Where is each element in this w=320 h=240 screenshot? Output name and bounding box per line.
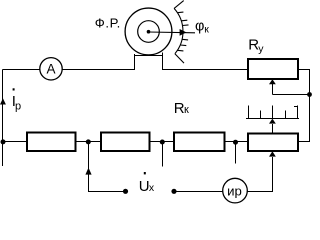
- label Rk: [174, 100, 189, 117]
- slide top wiper arrow: [269, 119, 276, 134]
- svg-text:у: у: [258, 43, 264, 55]
- svg-text:к: к: [184, 104, 189, 116]
- label Ry: [248, 37, 264, 55]
- wire Ux tap: [89, 142, 124, 192]
- wire ammeter to pedestal: [62, 69, 134, 71]
- indicator ir: [223, 178, 248, 203]
- node D (wiper to right rail): [307, 92, 312, 97]
- svg-text:х: х: [149, 182, 155, 194]
- ammeter A: [40, 58, 62, 80]
- potentiometer Ry: [248, 59, 298, 79]
- terminal dot Ux right: [171, 189, 176, 194]
- svg-text:к: к: [204, 24, 209, 36]
- slide bottom wiper arrow: [269, 151, 276, 156]
- label Ux: [139, 172, 155, 195]
- svg-text:A: A: [46, 62, 55, 77]
- needle arrow: [149, 29, 196, 36]
- Ry wiper arrow: [269, 79, 310, 94]
- node B (after R1, Ux tap): [86, 139, 91, 144]
- label phi k: [195, 18, 209, 35]
- phase regulator U1 inner circle: [138, 21, 160, 43]
- terminal dot Ux left: [123, 189, 128, 194]
- wire left column: [2, 70, 4, 167]
- wire indicator to wiper: [247, 157, 272, 192]
- wire bottom rail seg2: [76, 141, 101, 143]
- scale ticks phi: [174, 1, 188, 64]
- svg-text:р: р: [15, 100, 21, 112]
- node C (after R2): [160, 140, 165, 145]
- wire Ux to indicator: [177, 191, 223, 193]
- scale arc phi: [174, 8, 183, 53]
- wire right rail: [298, 70, 310, 142]
- current arrow Ip: [0, 98, 6, 104]
- potentiometer Rk slide: [248, 134, 298, 152]
- slide scale comb: [246, 106, 299, 119]
- node E (after R3): [233, 140, 238, 145]
- phase regulator pedestal: [135, 53, 163, 71]
- svg-text:φ: φ: [195, 18, 204, 34]
- wire bottom rail seg3: [150, 141, 174, 143]
- wire stub node B: [162, 142, 164, 167]
- wire bottom rail seg4: [225, 141, 249, 143]
- wire bottom rail seg1: [3, 141, 28, 143]
- resistor R1: [27, 133, 76, 152]
- phase regulator U1 center dot: [147, 30, 151, 34]
- svg-text:Ф.Р.: Ф.Р.: [95, 16, 121, 31]
- node A (left rail junction): [1, 139, 6, 144]
- Ux tap arrow: [85, 168, 91, 175]
- resistor R3: [174, 133, 225, 152]
- label Ip: [12, 88, 21, 112]
- resistor R2: [101, 133, 150, 152]
- svg-text:ир: ир: [227, 183, 242, 198]
- wire pedestal to Ry: [163, 69, 249, 71]
- wire top rail left: [3, 69, 41, 71]
- wire stub node C: [235, 142, 237, 164]
- phase regulator U1 outer circle: [125, 8, 172, 55]
